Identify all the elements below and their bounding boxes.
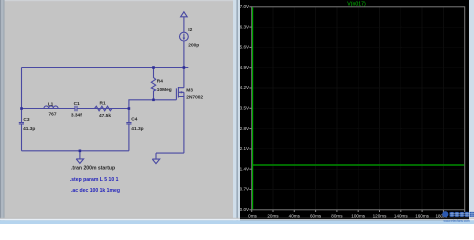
svg-text:C1: C1 xyxy=(74,101,80,107)
svg-text:R4: R4 xyxy=(157,78,163,84)
svg-text:41.3p: 41.3p xyxy=(131,126,143,132)
svg-text:1.4V: 1.4V xyxy=(240,166,250,171)
svg-text:6.3V: 6.3V xyxy=(240,24,250,29)
svg-text:R1: R1 xyxy=(100,100,106,106)
svg-text:L1: L1 xyxy=(48,101,54,107)
svg-text:47.5k: 47.5k xyxy=(99,113,111,119)
svg-text:I2: I2 xyxy=(188,27,192,33)
svg-text:140ms: 140ms xyxy=(394,213,408,218)
svg-text:C4: C4 xyxy=(131,116,137,122)
svg-text:767: 767 xyxy=(49,112,57,118)
svg-text:200p: 200p xyxy=(188,43,199,49)
svg-text:3.34f: 3.34f xyxy=(71,112,82,118)
svg-text:120ms: 120ms xyxy=(373,213,387,218)
svg-text:160ms: 160ms xyxy=(415,213,429,218)
svg-text:4.9V: 4.9V xyxy=(240,65,250,70)
svg-text:100ms: 100ms xyxy=(351,213,365,218)
svg-text:M3: M3 xyxy=(186,87,193,93)
svg-text:40ms: 40ms xyxy=(289,213,301,218)
svg-text:60ms: 60ms xyxy=(310,213,322,218)
svg-text:.tran 200m startup: .tran 200m startup xyxy=(71,165,115,171)
svg-text:80ms: 80ms xyxy=(331,213,343,218)
svg-text:0.0V: 0.0V xyxy=(240,207,250,212)
svg-text:0.7V: 0.7V xyxy=(240,187,250,192)
svg-text:41.3p: 41.3p xyxy=(23,126,35,132)
svg-text:2.1V: 2.1V xyxy=(240,146,250,151)
svg-text:V(n017): V(n017) xyxy=(347,1,366,7)
svg-text:7.0V: 7.0V xyxy=(240,4,250,9)
svg-text:2.8V: 2.8V xyxy=(240,126,250,131)
svg-text:0ms: 0ms xyxy=(248,213,257,218)
svg-text:C3: C3 xyxy=(23,117,29,123)
svg-text:2N7002: 2N7002 xyxy=(186,94,203,100)
svg-text:3.5V: 3.5V xyxy=(240,106,250,111)
svg-text:.step param L 5 10 1: .step param L 5 10 1 xyxy=(70,177,119,183)
svg-text:4.2V: 4.2V xyxy=(240,85,250,90)
svg-text:.ac dec 100 1k 1meg: .ac dec 100 1k 1meg xyxy=(71,188,120,194)
svg-text:www.elecfans.com: www.elecfans.com xyxy=(444,219,471,223)
svg-text:5.6V: 5.6V xyxy=(240,45,250,50)
svg-text:10Meg: 10Meg xyxy=(157,87,172,93)
svg-text:20ms: 20ms xyxy=(267,213,279,218)
